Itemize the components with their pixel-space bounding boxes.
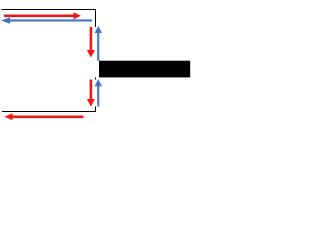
wire: top-right vertical line down to upper arrows	[95, 9, 96, 27]
wire: vertical segment box bottom to lower arrows	[95, 77, 96, 79]
wire: vertical segment lower arrows to bottom line	[95, 107, 96, 113]
arrow: bottom red arrow pointing left	[5, 113, 84, 120]
arrow: upper red arrow pointing down	[87, 27, 95, 58]
arrow: upper blue arrow pointing up	[95, 26, 102, 61]
box: black filled rectangle	[99, 61, 190, 78]
arrow: top blue arrow pointing left	[1, 17, 92, 24]
wire: bottom horizontal line	[2, 111, 96, 112]
arrow: lower red arrow pointing down	[87, 80, 95, 107]
arrow: top red arrow pointing right	[4, 12, 81, 19]
arrow: lower blue arrow pointing up	[95, 79, 102, 107]
wire: top horizontal line	[2, 9, 97, 10]
